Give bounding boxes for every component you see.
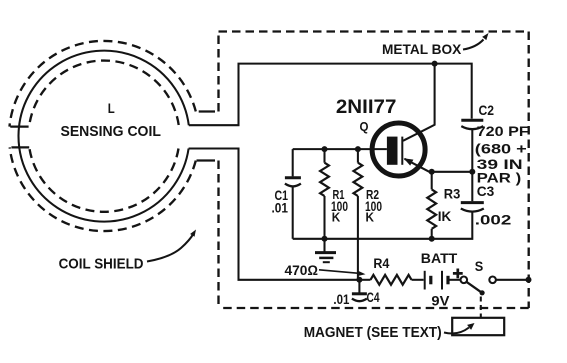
svg-text:.002: .002 [475,212,512,228]
svg-text:IK: IK [438,208,452,224]
svg-text:C2: C2 [479,103,495,118]
svg-text:.01: .01 [272,201,289,216]
svg-text:720 PF: 720 PF [477,123,530,139]
svg-text:9V: 9V [431,293,450,309]
svg-text:SENSING COIL: SENSING COIL [61,123,161,140]
svg-text:K: K [332,210,341,225]
svg-text:L: L [108,100,115,116]
svg-text:K: K [366,210,375,225]
svg-text:MAGNET (SEE TEXT): MAGNET (SEE TEXT) [304,325,442,341]
svg-text:Q: Q [360,120,369,134]
svg-text:2NII77: 2NII77 [336,97,397,118]
svg-text:R3: R3 [444,185,461,201]
svg-text:R4: R4 [373,256,389,271]
svg-text:S: S [475,258,484,274]
svg-text:BATT: BATT [421,251,458,266]
svg-text:COIL SHIELD: COIL SHIELD [59,255,144,272]
svg-text:(680 +: (680 + [475,141,527,157]
svg-text:470Ω: 470Ω [285,262,319,278]
svg-text:C4: C4 [367,290,380,305]
svg-text:C3: C3 [477,183,495,199]
svg-text:METAL BOX: METAL BOX [382,42,461,57]
svg-text:.01: .01 [333,292,349,307]
